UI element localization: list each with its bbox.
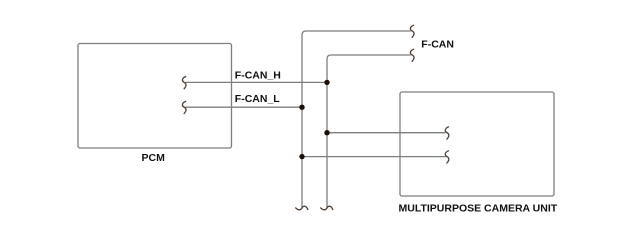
wire-break squiggle at bottom of bus line 2 — [321, 206, 333, 210]
junction dot F-CAN_H on bus line 2 — [324, 80, 329, 85]
svg-text:F-CAN: F-CAN — [421, 38, 454, 50]
connector squiggle at camera unit pin 1 — [445, 127, 449, 139]
svg-text:F-CAN_L: F-CAN_L — [235, 93, 280, 105]
wire F-CAN_H from PCM to bus line 2 — [186, 81, 328, 83]
connector squiggle at camera unit pin 2 — [445, 151, 449, 163]
junction dot camera pin 2 on bus line 1 — [299, 154, 304, 159]
wire-break squiggle at bottom of bus line 1 — [296, 206, 308, 210]
svg-text:F-CAN_H: F-CAN_H — [235, 70, 281, 82]
wire from bus line 2 to camera unit pin 1 — [327, 132, 446, 134]
wire F-CAN bus line 2 (vertical) with top branch to F-CAN connector — [327, 55, 411, 207]
svg-text:MULTIPURPOSE CAMERA UNIT: MULTIPURPOSE CAMERA UNIT — [399, 202, 558, 214]
ECU box multipurpose camera unit — [400, 92, 554, 196]
wire from bus line 1 to camera unit pin 2 — [302, 156, 446, 158]
connector squiggle at PCM F-CAN_L pin — [182, 101, 186, 113]
wire F-CAN bus line 1 (vertical) with top branch to F-CAN connector — [302, 31, 411, 207]
svg-text:PCM: PCM — [142, 152, 166, 164]
connector squiggle at PCM F-CAN_H pin — [182, 77, 186, 89]
wire F-CAN_L from PCM to bus line 1 — [186, 106, 303, 108]
junction dot F-CAN_L on bus line 1 — [299, 105, 304, 110]
junction dot camera pin 1 on bus line 2 — [324, 130, 329, 135]
connector squiggle at F-CAN branch 2 — [410, 49, 414, 61]
connector squiggle at F-CAN branch 1 — [410, 25, 414, 37]
ECU box PCM — [78, 44, 232, 149]
